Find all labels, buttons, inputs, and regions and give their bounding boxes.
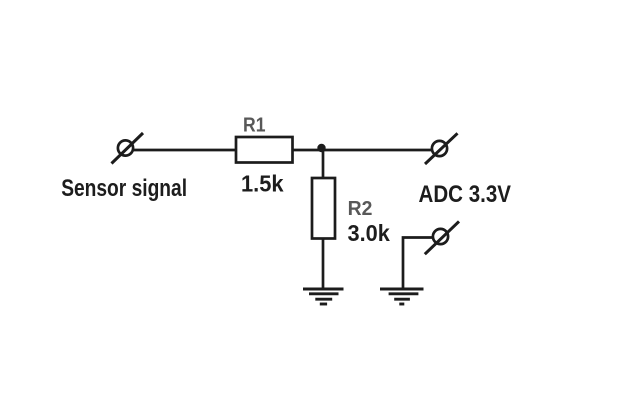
- svg-text:3.0k: 3.0k: [348, 220, 391, 246]
- svg-text:Sensor signal: Sensor signal: [61, 174, 187, 202]
- junction node (R1/R2/ADC net): [317, 144, 325, 152]
- resistor R2: [312, 178, 335, 239]
- wire: P1 to R1: [133, 149, 237, 152]
- resistor R1: [236, 137, 293, 163]
- port P2 (ADC terminal): [425, 133, 458, 164]
- svg-text:1.5k: 1.5k: [241, 171, 284, 197]
- svg-text:R2: R2: [348, 198, 373, 220]
- wire: R1 to port P2: [293, 149, 433, 152]
- svg-text:ADC 3.3V: ADC 3.3V: [419, 180, 512, 207]
- svg-text:R1: R1: [243, 113, 265, 135]
- wire: junction down to R2: [322, 149, 325, 179]
- port P1 (Sensor signal input terminal): [112, 133, 144, 164]
- ground (under R2): [303, 289, 344, 304]
- port P3 (ADC 3.3V reference terminal): [425, 221, 459, 254]
- wire: P3 to ground (L-shape): [403, 238, 433, 290]
- wire: R2 to ground: [322, 239, 325, 290]
- ground (reference terminal): [380, 289, 424, 304]
